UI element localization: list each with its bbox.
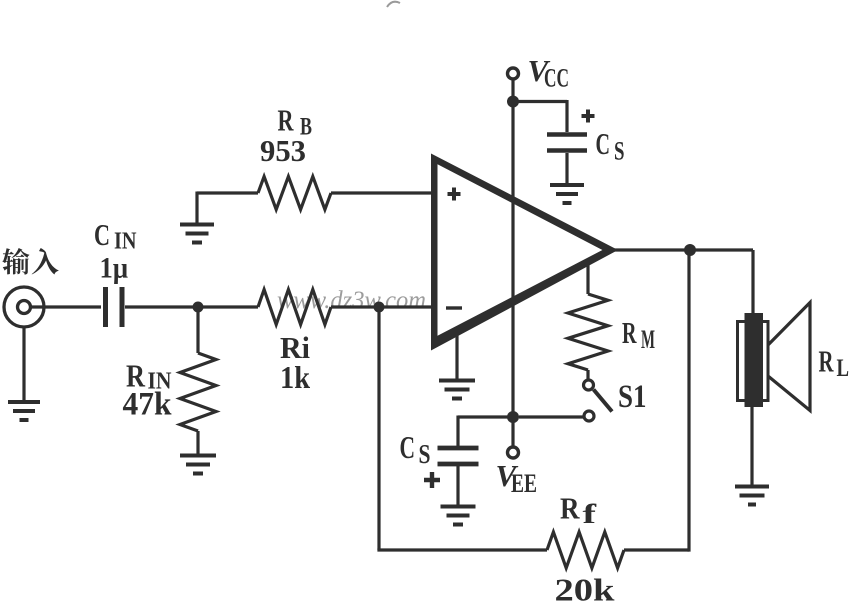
svg-text:47k: 47k: [123, 387, 173, 423]
input connector J1 (输入): [4, 287, 44, 327]
op-amp U1: [431, 154, 618, 351]
terminal VEE: [508, 447, 519, 458]
node: VCC junction: [507, 96, 519, 108]
wire: CIN to Ri: [125, 305, 258, 308]
wire: RB left to ground stem: [197, 192, 258, 225]
svg-text:C: C: [596, 126, 611, 161]
ground (opamp): [439, 381, 475, 399]
svg-text:20k: 20k: [555, 572, 615, 601]
capacitor CS (bottom) plates: [438, 446, 479, 451]
wire: VCC terminal to rail: [511, 79, 514, 102]
wire: junction down to RIN: [196, 307, 199, 353]
svg-text:1k: 1k: [280, 359, 310, 395]
svg-text:CC: CC: [544, 64, 569, 93]
resistor Ri: [258, 290, 331, 325]
svg-text:R: R: [819, 344, 834, 379]
wire: VCC rail through opamp down to VEE junction: [511, 102, 514, 418]
resistor RIN: [180, 353, 216, 431]
svg-text:R: R: [560, 491, 580, 526]
wire: feedback right vertical to output: [687, 250, 690, 552]
svg-text:S: S: [419, 439, 431, 469]
wire: VEE junction to switch: [519, 415, 584, 418]
svg-text:R: R: [622, 315, 637, 350]
capacitor CIN plates: [103, 287, 108, 327]
op-amp minus input mark: [446, 306, 462, 309]
ground (CS top): [550, 185, 584, 203]
wire: feedback left vertical: [377, 307, 380, 550]
svg-text:C: C: [94, 217, 110, 252]
wire: RM to switch: [586, 370, 589, 380]
wire: opamp output: [613, 248, 753, 251]
svg-text:www.dz3w.com: www.dz3w.com: [277, 287, 426, 314]
wire: top edge scan artifact: [387, 2, 400, 7]
label 输入: [2, 248, 58, 275]
wire: speaker to ground: [750, 407, 753, 486]
svg-text:1μ: 1μ: [100, 252, 129, 285]
wire: VCC to CS top: [513, 100, 567, 132]
wire: opamp ground pin: [455, 334, 458, 380]
wire: CS top to ground: [565, 153, 568, 184]
switch S1 lever: [594, 390, 613, 412]
ground (RIN): [180, 456, 216, 474]
ground (RB): [180, 225, 214, 243]
svg-text:f: f: [583, 499, 598, 529]
node: output junction: [684, 244, 696, 256]
svg-text:S: S: [614, 137, 625, 166]
wire: opamp edge to RM: [586, 263, 589, 294]
polarity plus (CS top): [582, 110, 595, 123]
wire: connector to CIN: [30, 305, 101, 308]
wire: bottom rail right: [624, 548, 689, 551]
svg-text:953: 953: [260, 133, 306, 168]
svg-text:C: C: [400, 429, 416, 465]
node: VEE junction: [507, 411, 519, 423]
svg-text:EE: EE: [511, 469, 537, 498]
wire: junction to VEE terminal: [511, 417, 514, 447]
svg-text:S1: S1: [618, 379, 647, 415]
resistor RM: [568, 294, 608, 370]
speaker RL horn: [768, 303, 810, 411]
node: feedback junction: [374, 302, 385, 313]
svg-text:L: L: [837, 355, 849, 382]
ground (input): [8, 402, 40, 420]
polarity plus (CS bottom): [424, 472, 440, 488]
wire: bottom rail left: [377, 548, 547, 551]
wire: Ri to opamp inverting input: [331, 305, 434, 308]
speaker RL body: [745, 313, 764, 407]
wire: output down to speaker: [751, 250, 754, 318]
op-amp plus input mark: [448, 188, 461, 201]
node: junction at RIN top: [193, 302, 204, 313]
wire: junction to CS bottom: [458, 416, 513, 447]
capacitor CS (top) plates: [547, 132, 587, 137]
terminal VCC: [508, 68, 519, 79]
wire: RB to opamp non-inverting input: [331, 191, 434, 194]
resistor Rf: [547, 532, 624, 568]
switch S1 top contact: [584, 380, 594, 390]
ground (CS bottom): [441, 507, 476, 525]
svg-text:M: M: [641, 325, 655, 354]
ground (speaker): [735, 487, 769, 505]
wire: connector to ground: [22, 328, 25, 400]
resistor RB: [258, 177, 331, 210]
wire: CS bottom to ground: [456, 466, 459, 506]
switch S1 bottom contact: [584, 411, 594, 421]
wire: RIN to ground: [196, 431, 199, 455]
